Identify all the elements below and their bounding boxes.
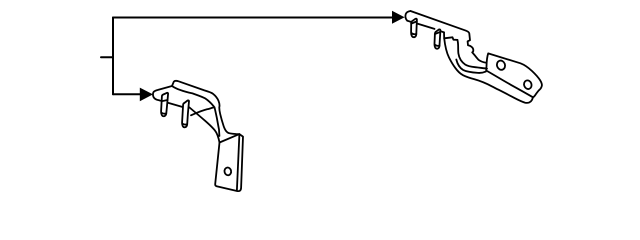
arm inner curve and inner steep edge xyxy=(191,107,219,136)
bar bottom edge xyxy=(407,21,444,33)
peg P2 xyxy=(434,29,440,48)
arm outer silhouette sweeping under plate xyxy=(444,38,533,103)
bracket B1 (upper right) xyxy=(405,11,541,103)
bar left end cap xyxy=(405,11,410,21)
plate outline with bottom edge D1 xyxy=(486,53,542,97)
rim top edge and left cap xyxy=(153,86,220,143)
peg P2 foot line xyxy=(435,45,440,46)
wire bottom leader xyxy=(113,93,140,95)
hole H2 xyxy=(523,79,533,90)
arm middle curve to notch xyxy=(456,60,486,73)
peg P4 foot line xyxy=(182,123,187,124)
arrowhead bottom xyxy=(140,88,153,102)
bracket B2 (lower left) xyxy=(153,81,243,191)
step drop and ledge under bar xyxy=(444,32,457,40)
wire top leader xyxy=(113,17,392,19)
peg P3 xyxy=(161,93,168,116)
bar top edge, right end drop and hook xyxy=(411,11,487,63)
peg P2 top fold line xyxy=(435,32,441,34)
arm inner edge xyxy=(457,40,487,69)
peg P3 foot line xyxy=(161,113,166,114)
peg P4 xyxy=(182,100,189,127)
peg P1 foot line xyxy=(411,33,416,34)
arrowhead top xyxy=(392,11,405,24)
wire leader tick xyxy=(101,56,113,58)
wire vertical leader xyxy=(112,18,114,95)
hole H1 xyxy=(496,59,507,71)
peg P1 top fold line xyxy=(411,21,417,23)
rib top xyxy=(172,81,239,134)
tab outline xyxy=(215,134,243,191)
peg P1 xyxy=(411,19,417,38)
tab fold inner line xyxy=(237,134,240,190)
rim fold line xyxy=(172,86,214,107)
peg P3 crossing line xyxy=(162,100,168,101)
hole H3 xyxy=(224,167,232,176)
